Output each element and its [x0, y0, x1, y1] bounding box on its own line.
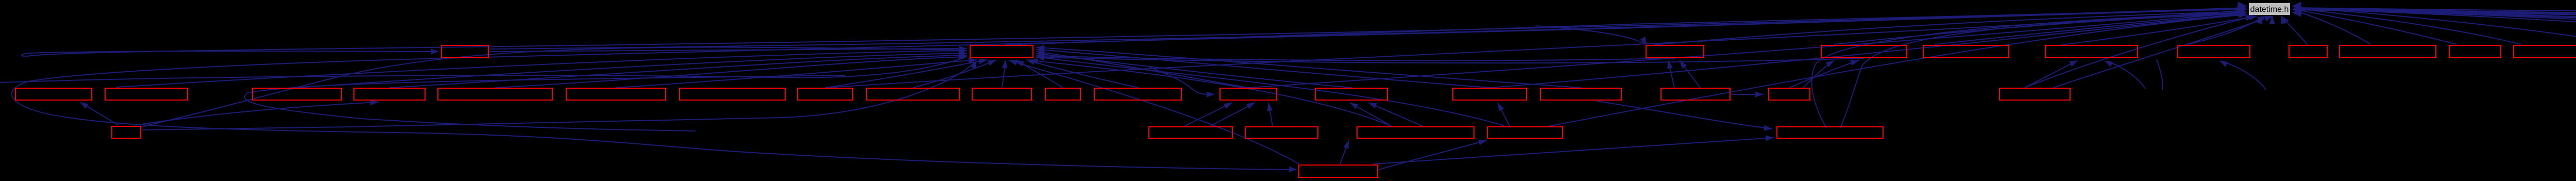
edge r3n to hub right	[1036, 52, 1351, 88]
edge from node r4f to datetime.h b	[1840, 14, 2244, 128]
edge r3r to r2d b	[1803, 60, 1834, 88]
node row3-13	[1220, 88, 1277, 100]
edge sweep exits right edge 1	[2294, 8, 2576, 13]
node row3-2	[105, 88, 188, 100]
edge from node r4f to datetime.h a	[1812, 12, 2244, 128]
edge sweep right 2	[2294, 9, 2576, 42]
edge r2d bottom to hub right	[1036, 55, 1864, 63]
edge r3b to hub left	[297, 51, 967, 88]
edge small box flat toward hub bottom	[142, 60, 976, 130]
edge r3s to r2f a	[2025, 60, 2078, 88]
node row2-5	[1923, 45, 2009, 58]
node row4-5	[1487, 127, 1563, 138]
node row3-12	[1094, 88, 1181, 100]
edge node r2g top to datetime.h bottom	[2185, 16, 2266, 45]
edge node r2j top to datetime.h right	[2294, 9, 2456, 44]
edge from datetime.h bundle curving into r2c top	[1535, 26, 1647, 45]
edge sweep right 5	[2294, 9, 2576, 42]
root node datetime.h	[2249, 3, 2290, 15]
edge sweep right 7	[2294, 9, 2576, 50]
edge hairpin between row3 boxes	[245, 75, 845, 131]
node row3-9	[867, 88, 959, 100]
node row4-2	[1149, 127, 1232, 138]
edge r4b to r3m b	[1211, 103, 1255, 126]
hub node	[970, 45, 1033, 58]
edge V right from node r3s to datetime.h	[2053, 16, 2273, 88]
edge from node r4e up to datetime.h	[1548, 12, 2247, 126]
edge r3e top to hub left	[495, 54, 967, 88]
edge node r2c top to datetime.h	[1654, 11, 2245, 45]
node row4-1	[112, 126, 141, 138]
edge hook into r2g bottom	[2219, 60, 2266, 90]
arrowhead cluster into datetime.h right	[2292, 2, 2302, 17]
edge stub under r2f	[2157, 59, 2163, 90]
edge arc from datetime.h around left into left box	[22, 8, 2246, 56]
edge curve from hub area into r3m left	[1149, 67, 1215, 97]
edge r3q to r2c a	[1667, 60, 1674, 88]
edge r3c to hub left	[389, 53, 967, 88]
edge r3q to r2c b	[1680, 60, 1700, 88]
edge long flat into hub from far left	[0, 58, 964, 83]
node row3-8	[798, 88, 853, 100]
node row2-7	[2178, 45, 2250, 58]
node row2-4	[1821, 45, 1907, 58]
edge r2c bottom to hub right	[1036, 53, 1675, 61]
edge hook into r2f bottom	[2105, 60, 2145, 89]
node row3-15	[1453, 88, 1527, 100]
node row4-6	[1777, 127, 1883, 138]
edge small box to r3d bottom	[135, 100, 379, 125]
edge r3r to r2d	[1789, 60, 1859, 88]
edge adjacent arrow r3q to r3r	[1732, 92, 1764, 97]
edge sweep right 1	[2294, 9, 2576, 41]
edge sweep right 3	[2294, 9, 2576, 43]
node row2-1	[442, 45, 488, 58]
edge r3f top to hub bottom	[616, 58, 977, 88]
edge r3o to hub right	[1036, 47, 1490, 88]
node row3-10	[972, 88, 1031, 100]
node row3-5	[438, 88, 552, 100]
edge r3m to hub right	[1036, 50, 1248, 88]
edge r4d top to hub bottom	[1029, 58, 1391, 126]
edge r3p down to r4f	[1597, 101, 1772, 131]
edge small box to r3a bottom	[80, 102, 118, 125]
arrowhead cluster into datetime.h left	[2237, 2, 2247, 17]
node row3-1	[15, 88, 92, 100]
node row3-6	[566, 88, 666, 100]
node row4-4	[1357, 127, 1474, 138]
node row2-8	[2289, 45, 2327, 58]
edge r4c to r3m	[1267, 103, 1273, 126]
edge node r2i top to datetime.h right	[2294, 10, 2370, 44]
edge node r3 to datetime.h long 3	[1490, 13, 2245, 88]
edge r4d to r3n b	[1368, 103, 1422, 126]
edge r4e top to hub right	[1036, 55, 1504, 126]
edge r4d to r3n a	[1350, 103, 1391, 126]
node row2-11	[2514, 45, 2576, 58]
edge left box to datetime.h left	[490, 8, 2245, 49]
edge r4b to r3m a	[1185, 103, 1232, 126]
node row5-1	[1299, 165, 1378, 177]
node row2-9	[2340, 45, 2436, 58]
edge r3 to hub bottom 5	[1026, 59, 1138, 88]
edge node r2e top to datetime.h	[1935, 14, 2245, 44]
edge node r3 to datetime.h long 2	[1248, 12, 2245, 88]
edge V left from node r3s to datetime.h	[2025, 15, 2254, 88]
edge sweep exits right edge 2	[2294, 9, 2576, 19]
edge node r2d top to datetime.h	[1834, 13, 2245, 44]
edge bottom box to r4d bottom	[1340, 140, 1349, 164]
edge node r2h top to datetime.h bottom	[2281, 16, 2308, 45]
edge sweep right 4	[2294, 9, 2576, 43]
edge node r2l top to datetime.h right	[2294, 7, 2576, 44]
node row4-3	[1245, 127, 1318, 138]
edge sweep right 6	[2294, 9, 2576, 38]
edge r3 to hub bottom 4	[1016, 60, 1063, 88]
node row3-18	[1769, 88, 1810, 100]
edge node r3 to datetime.h long 1	[825, 10, 2245, 88]
edge arc around far left to bottom node	[12, 9, 2246, 172]
edge bottom box to r4e bottom	[1377, 140, 1487, 170]
node row3-3	[252, 88, 342, 100]
node row3-16	[1540, 88, 1621, 100]
edge small box steep toward hub	[141, 47, 964, 127]
edge node r2f top to datetime.h bottom	[2061, 14, 2258, 45]
edge hub top to datetime.h left	[1005, 9, 2245, 45]
node row3-7	[680, 88, 785, 100]
node row3-17	[1661, 88, 1730, 100]
edge bottom box up to hub	[1009, 60, 1299, 164]
edge sweep exits right edge 3	[2294, 10, 2576, 25]
svg-text:datetime.h: datetime.h	[2250, 5, 2289, 14]
node row3-19	[1999, 88, 2070, 100]
edge left box right side to hub left	[490, 46, 967, 52]
edge r3 to hub bottom 2	[913, 60, 996, 88]
edge r3a to hub left	[116, 48, 967, 87]
node row3-14	[1315, 88, 1387, 100]
edge node r2k top to datetime.h right	[2294, 8, 2521, 44]
edge r4e to r3o	[1498, 103, 1510, 126]
node row3-4	[354, 88, 425, 100]
node row2-6	[2045, 45, 2138, 58]
node row2-3	[1646, 45, 1704, 58]
edge r3 to hub bottom 3	[1002, 60, 1008, 88]
arrowhead cluster into datetime.h bottom	[2257, 15, 2286, 24]
edge bottom box to r4f bottom	[1373, 135, 1774, 164]
edge r3p to hub right	[1036, 45, 1581, 88]
node row2-10	[2449, 45, 2501, 58]
edge r3 to hub bottom 1	[825, 59, 987, 88]
node row3-11	[1045, 88, 1080, 100]
